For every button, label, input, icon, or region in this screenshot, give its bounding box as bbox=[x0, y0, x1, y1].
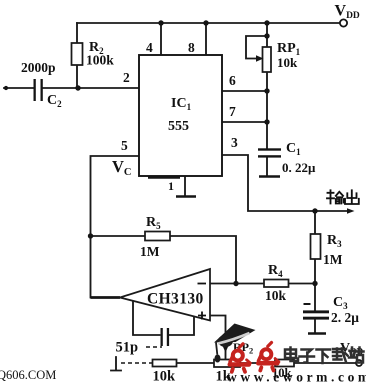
svg-text:100k: 100k bbox=[86, 53, 114, 68]
svg-text:2. 2μ: 2. 2μ bbox=[331, 310, 359, 325]
svg-text:3: 3 bbox=[231, 135, 238, 150]
svg-text:1: 1 bbox=[168, 179, 174, 193]
svg-text:1M: 1M bbox=[323, 252, 343, 267]
svg-text:10k: 10k bbox=[277, 55, 298, 70]
svg-text:6: 6 bbox=[229, 73, 236, 88]
svg-text:2000p: 2000p bbox=[21, 60, 56, 75]
svg-text:R4: R4 bbox=[268, 263, 283, 279]
svg-text:CH3130: CH3130 bbox=[147, 291, 204, 308]
svg-text:7: 7 bbox=[229, 104, 236, 119]
svg-text:C1: C1 bbox=[286, 141, 301, 157]
svg-text:VDD: VDD bbox=[335, 3, 360, 22]
svg-text:2: 2 bbox=[123, 70, 130, 85]
svg-text:51p: 51p bbox=[116, 340, 139, 356]
svg-text:VC: VC bbox=[112, 157, 132, 178]
svg-text:555: 555 bbox=[168, 119, 189, 134]
svg-text:C2: C2 bbox=[47, 93, 62, 109]
svg-text:www.eworm.com: www.eworm.com bbox=[227, 370, 366, 383]
svg-text:1M: 1M bbox=[140, 244, 160, 259]
svg-text:10k: 10k bbox=[153, 369, 177, 383]
svg-text:C3: C3 bbox=[333, 295, 348, 311]
svg-text:R5: R5 bbox=[146, 215, 161, 231]
svg-text:Q606.COM: Q606.COM bbox=[0, 368, 56, 382]
svg-text:R3: R3 bbox=[327, 233, 342, 249]
svg-text:4: 4 bbox=[146, 40, 153, 55]
svg-text:8: 8 bbox=[188, 40, 195, 55]
svg-text:10k: 10k bbox=[265, 288, 287, 303]
svg-text:0. 22μ: 0. 22μ bbox=[282, 160, 316, 175]
svg-text:5: 5 bbox=[121, 138, 128, 153]
